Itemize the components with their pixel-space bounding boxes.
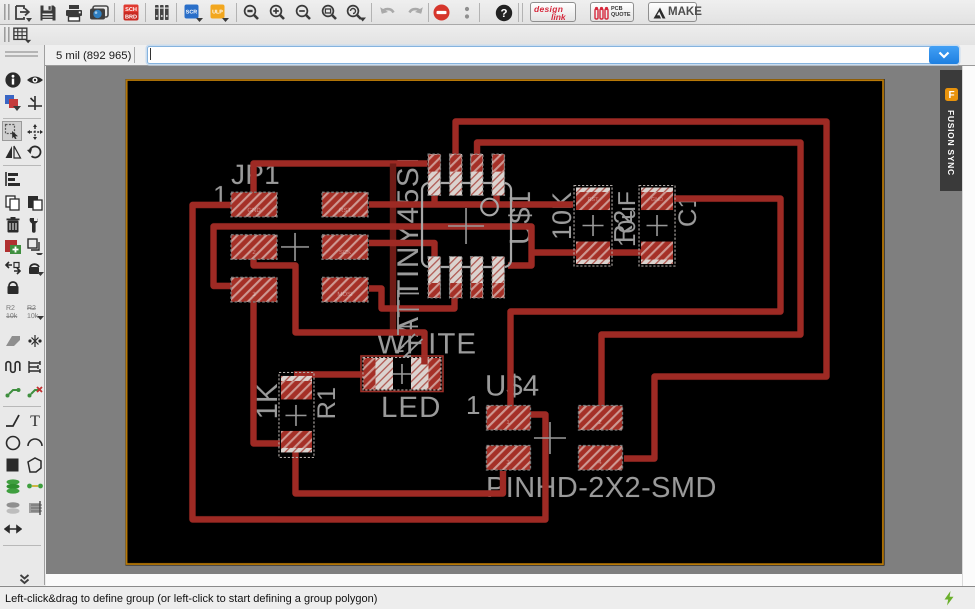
- polygon tool: [26, 456, 44, 474]
- wire GND JP1 pin3 to LED cathode: [253, 258, 424, 358]
- svg-text:T: T: [30, 413, 40, 429]
- svg-text:RST: RST: [339, 207, 351, 214]
- pinswap tool: [4, 259, 22, 277]
- connector JP1 pad 5 MISO: [231, 277, 277, 302]
- miter tool: [4, 332, 22, 350]
- wire stub into LED cathode pad: [421, 356, 427, 365]
- show/eye tool: [26, 71, 44, 89]
- text R2 name: [608, 210, 638, 243]
- wire RST JP1 pin2 to R2: [369, 201, 573, 207]
- wire R1 bottom to U$4 pin3: [295, 451, 503, 494]
- svg-text:R2: R2: [6, 305, 15, 312]
- coordinate display: [56, 50, 131, 62]
- align tool: [4, 170, 22, 188]
- svg-text:SCH: SCH: [125, 7, 137, 13]
- delete/trash tool: [4, 216, 22, 234]
- undo icon: [379, 4, 398, 21]
- svg-text:R2: R2: [27, 305, 36, 312]
- U$1 pad top 3: [471, 154, 484, 196]
- connector U$4 pad 3: [486, 445, 530, 470]
- text LED: [381, 391, 441, 424]
- vertical scrollbar: [962, 66, 975, 586]
- ratsnest tool: [26, 358, 44, 376]
- text pin 1 label U$4: [466, 390, 480, 420]
- R2 pad top: [576, 188, 610, 211]
- capacitor C1 outline: [639, 186, 675, 267]
- route tool: [4, 382, 22, 400]
- display layers tool: [4, 94, 22, 112]
- wire JP1 pin5 down to R1 bottom: [253, 300, 280, 444]
- rotate tool: [26, 143, 44, 161]
- second toolbar row: [0, 25, 975, 45]
- wire stub RST to U$1 pad1: [431, 193, 437, 205]
- combobox dropdown button: [929, 46, 959, 64]
- connector U$4 pad 1: [486, 405, 530, 430]
- R1 origin cross: [285, 405, 306, 426]
- connector JP1 pad 1 GND: [231, 192, 277, 217]
- svg-text:SCR: SCR: [186, 10, 197, 16]
- coordinate / command row: [0, 45, 975, 66]
- sync lightning icon: [941, 590, 957, 607]
- svg-text:R1: R1: [313, 387, 341, 420]
- SCH/BRD icon: [123, 4, 139, 21]
- zoom fit icon: [243, 4, 260, 22]
- svg-text:LED: LED: [381, 391, 441, 424]
- text U$4: [485, 369, 539, 402]
- lock tool with arrow: [26, 259, 44, 277]
- svg-text:?: ?: [500, 8, 507, 20]
- mirror tool: [4, 143, 22, 161]
- MAKE button: [648, 2, 697, 22]
- grid icon: [13, 27, 32, 44]
- U$1 pin 1 marker circle: [481, 199, 498, 216]
- paste tool: [26, 194, 44, 212]
- wire GND from JP1 pin1 up to U$1 pin1: [254, 163, 428, 194]
- ic U$1 SOIC-8 outline: [422, 183, 511, 267]
- connector JP1 pad 4 SCK: [322, 235, 368, 260]
- wire U$4 pin1 to C1 loop: [510, 199, 780, 408]
- open/export icon: [13, 4, 33, 22]
- text pin 1 label JP1: [213, 180, 227, 210]
- JP1 origin cross: [281, 233, 309, 261]
- led LED package: [361, 356, 443, 392]
- wire MOSI JP1 pin5 to U$1: [369, 288, 455, 308]
- zoom select icon: [321, 4, 338, 22]
- canvas: [46, 66, 962, 574]
- text C1: [674, 194, 702, 227]
- palette expand chevron: [19, 574, 30, 585]
- svg-text:MOSI: MOSI: [337, 291, 353, 298]
- library books icon: [154, 4, 170, 21]
- replace tool: [26, 237, 44, 255]
- connector JP1 pad 6 MOSI: [322, 277, 368, 302]
- wire U$1 pin7 to U$4 route: [455, 121, 826, 458]
- connector JP1 pad 3 VCC: [231, 235, 277, 260]
- group/select tool (active): [2, 121, 22, 141]
- pad tool: [4, 499, 22, 517]
- command combobox: [147, 46, 959, 64]
- U$1 pad bottom 4: [492, 256, 505, 298]
- help icon: [495, 4, 513, 22]
- wire GND left long route to U$4 pin1: [192, 205, 545, 520]
- svg-text:RST: RST: [588, 197, 600, 203]
- svg-text:BRD: BRD: [125, 15, 137, 21]
- R1 pad top: [281, 376, 312, 400]
- wire stub RST to U$1 pad8: [493, 193, 499, 205]
- R2 pad bottom: [576, 242, 610, 265]
- zoom in icon: [269, 4, 286, 22]
- top toolbar: [0, 0, 975, 25]
- U$1 pad top 1: [428, 154, 441, 196]
- redo icon: [405, 4, 424, 21]
- wire GND branch vertical: [390, 163, 396, 332]
- arc tool: [26, 434, 44, 452]
- C1 origin cross: [647, 215, 668, 236]
- move tool: [26, 123, 44, 141]
- connector U$4 pad 4: [578, 446, 622, 471]
- info tool: [4, 71, 22, 89]
- text PINHD-2X2-SMD: [486, 472, 717, 504]
- resistor R2 outline: [574, 186, 612, 267]
- signal tool: [26, 477, 44, 495]
- board dimension frame: [127, 80, 884, 564]
- text JP1: [231, 159, 280, 190]
- wire JP1 pin6 to U$1 route: [214, 226, 532, 286]
- svg-text:GND: GND: [651, 197, 663, 203]
- connector U$4 pad 2: [578, 406, 622, 431]
- C1 pad bottom: [641, 242, 673, 265]
- PCB QUOTE button: [590, 2, 634, 22]
- text U$1: [504, 191, 537, 245]
- status bar: [0, 586, 975, 609]
- wire branch to R2 C1 bottom pads: [530, 249, 671, 255]
- change/wrench tool: [26, 216, 44, 234]
- left tool palette: [0, 45, 45, 585]
- image/camera icon: [89, 4, 109, 22]
- text 10uF value: [614, 191, 641, 247]
- zoom redraw icon: [346, 4, 368, 22]
- U$4 origin cross: [534, 422, 566, 454]
- save icon: [39, 4, 57, 22]
- palette drag handle: [5, 51, 38, 53]
- U$1 pad bottom 2: [450, 256, 463, 298]
- C1 pad top: [641, 188, 673, 211]
- U$1 pad top 2: [450, 154, 463, 196]
- value tool: [26, 303, 44, 321]
- circle tool: [4, 434, 22, 452]
- Fusion Sync side tab: [940, 70, 963, 191]
- R1 pad bottom: [281, 431, 312, 453]
- name tool: [4, 303, 22, 321]
- design link button: [530, 2, 576, 22]
- toolbar2 drag handle: [4, 27, 6, 42]
- zoom out icon: [295, 4, 312, 22]
- connector JP1 pad 2 RST: [322, 192, 368, 217]
- options dots icon: [462, 4, 472, 22]
- svg-text:1: 1: [466, 390, 480, 420]
- svg-text:PINHD-2X2-SMD: PINHD-2X2-SMD: [486, 472, 717, 504]
- svg-text:10K: 10K: [547, 192, 577, 240]
- print icon: [65, 4, 83, 22]
- LED cathode mark lines: [397, 290, 423, 357]
- rect tool: [4, 456, 22, 474]
- U$1 origin cross: [448, 208, 484, 244]
- mark/crosshair tool: [26, 94, 44, 112]
- ripup tool: [26, 382, 44, 400]
- horizontal scrollbar: [46, 574, 962, 586]
- text 1K value R1: [251, 383, 284, 419]
- U$1 pad bottom 3: [471, 256, 484, 298]
- toolbar drag handle: [4, 4, 6, 20]
- add part tool: [4, 237, 22, 255]
- SCR script icon: [184, 4, 206, 22]
- meander tool: [4, 358, 22, 376]
- svg-text:10k: 10k: [6, 312, 18, 320]
- text 10K value R2: [547, 192, 577, 240]
- smd tool: [26, 499, 44, 517]
- text R1 name: [313, 387, 341, 420]
- lock tool: [4, 278, 22, 296]
- resistor R1 outline: [279, 372, 314, 457]
- text WHITE: [377, 327, 477, 360]
- U$1 pad top 4: [492, 154, 505, 196]
- wire tool: [4, 411, 22, 429]
- svg-text:10uF: 10uF: [614, 191, 641, 247]
- ULP icon: [210, 4, 232, 22]
- svg-text:SCK: SCK: [339, 249, 351, 256]
- wire U$1 pin6 to U$4 route: [477, 142, 801, 407]
- stop icon: [433, 4, 450, 21]
- svg-text:ULP: ULP: [212, 10, 223, 16]
- wire SCK JP1 pin4 to U$1: [369, 243, 435, 257]
- R2 origin cross: [583, 215, 604, 236]
- hole tool: [4, 520, 22, 538]
- text tool: [26, 411, 44, 429]
- board background: [125, 79, 884, 566]
- cursor mark at board corner: [116, 560, 130, 572]
- svg-text:GND: GND: [247, 207, 261, 214]
- wire R1 top to LED anode: [294, 371, 366, 377]
- text ATTINY45SI: [392, 156, 425, 337]
- copy tool: [4, 194, 22, 212]
- via tool: [4, 477, 22, 495]
- LED origin cross: [392, 364, 411, 384]
- U$1 pad bottom 1: [428, 256, 441, 298]
- smash tool: [26, 332, 44, 350]
